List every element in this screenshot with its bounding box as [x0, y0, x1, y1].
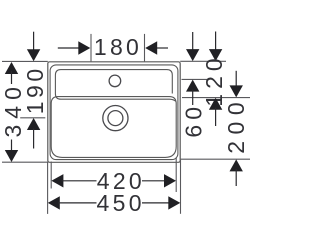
dimension 450 right arrow: [168, 196, 180, 209]
extension line top left: [2, 60, 48, 62]
dimension 340 line lower: [11, 140, 13, 153]
dimension 60 top arrow: [186, 49, 199, 61]
tap hole: [109, 75, 121, 87]
dimension 180 right arrow: [145, 41, 157, 54]
dimension 60 bottom leader: [192, 90, 194, 106]
dimension 190 top leader: [33, 32, 35, 51]
dimension 180 left extension line: [90, 34, 92, 62]
svg-text:200: 200: [223, 96, 249, 154]
extension line top right: [180, 60, 226, 62]
dimension 450 left arrow: [48, 196, 60, 209]
dimension 180 right leader: [155, 47, 168, 49]
dimension 420 line right: [142, 180, 166, 182]
dimension 200 top leader: [235, 71, 237, 87]
tap deck recess: [55, 70, 176, 102]
dimension 200 bottom leader: [235, 169, 237, 186]
dimension 200 bottom arrow: [230, 159, 243, 171]
dimension 450 right extension line: [180, 160, 182, 214]
extension line drain level left: [20, 117, 45, 119]
extension line bottom left: [2, 161, 48, 163]
dimension 340 top arrow: [5, 62, 18, 74]
dimension 450 line left: [58, 202, 97, 204]
dimension 190 bottom leader: [33, 129, 35, 149]
extension line bowl top level right: [182, 97, 250, 99]
dimension 120 top leader: [215, 32, 217, 52]
dimension 120 top arrow: [209, 49, 222, 61]
extension line tap hole level right: [182, 78, 209, 80]
dimension 120 bottom arrow: [209, 98, 222, 110]
dimension 190 top arrow: [27, 49, 40, 61]
extension line bottom right: [180, 158, 250, 160]
drain inner circle: [108, 111, 123, 126]
dimension 450 left extension line: [47, 162, 49, 214]
basin inner rim: [50, 65, 178, 160]
drain outer circle: [103, 106, 128, 131]
dimension 420 left extension line: [50, 162, 52, 189]
dimension 180 left leader: [58, 47, 81, 49]
bowl: [51, 97, 176, 158]
dimension 420 left arrow: [51, 174, 63, 187]
svg-text:190: 190: [22, 65, 48, 114]
dimension 60 top leader: [192, 32, 194, 51]
dimension 120 bottom leader: [215, 108, 217, 127]
dimension 420 line left: [62, 180, 97, 182]
dimension 180 left arrow: [78, 41, 90, 54]
dimension 450 line right: [142, 202, 170, 204]
dimension 420 right arrow: [164, 174, 176, 187]
dimension 60 bottom arrow: [186, 80, 199, 92]
dimension 190 bottom arrow: [27, 118, 40, 130]
dimension 340 line upper: [11, 71, 13, 84]
basin outer rim: [48, 62, 180, 163]
svg-text:180: 180: [94, 34, 142, 60]
dimension 420 right extension line: [175, 158, 177, 192]
dimension 340 bottom arrow: [5, 150, 18, 162]
svg-text:450: 450: [97, 190, 145, 216]
dimension 180 right extension line: [144, 34, 146, 62]
dimension 200 top arrow: [230, 85, 243, 97]
